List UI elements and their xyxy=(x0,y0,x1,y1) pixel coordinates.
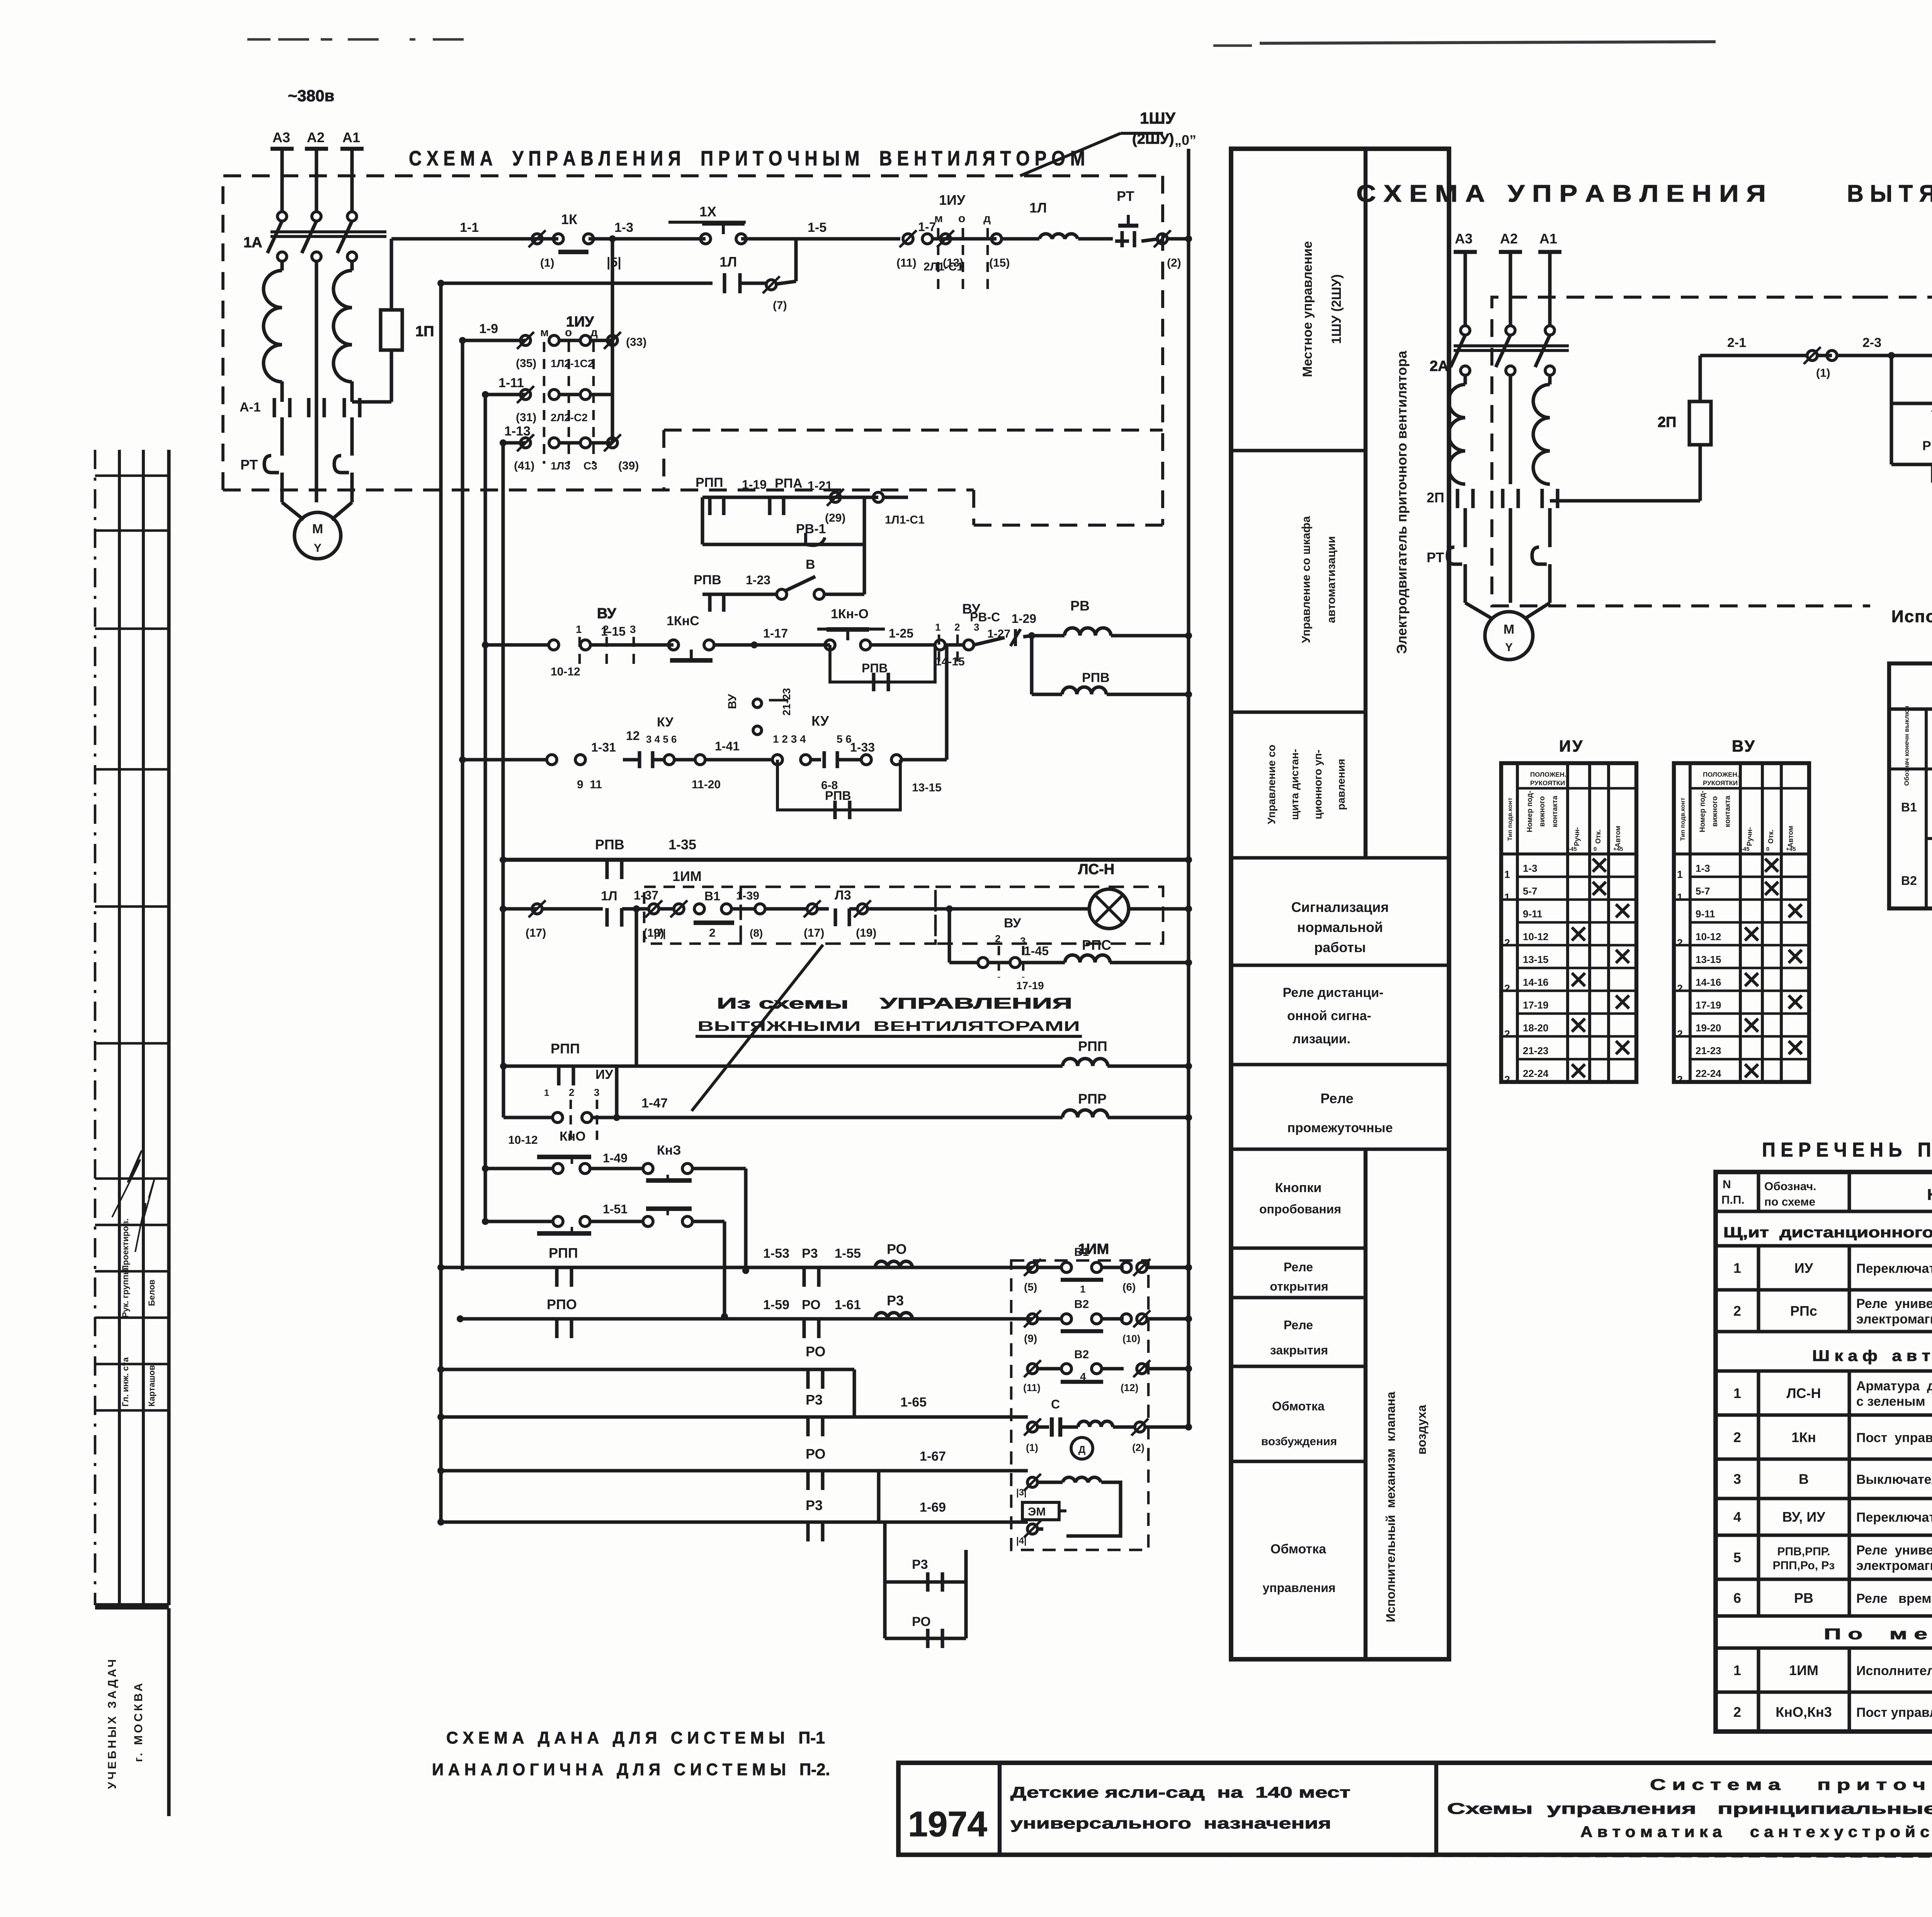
svg-text:N: N xyxy=(1723,1178,1731,1191)
rung 1-1 main control xyxy=(391,237,558,240)
svg-text:1-19: 1-19 xyxy=(742,478,767,492)
svg-text:2: 2 xyxy=(1733,1303,1741,1319)
svg-text:В: В xyxy=(806,557,815,572)
motor M exhaust xyxy=(1465,603,1492,618)
rung RO bottom xyxy=(885,1636,966,1640)
rung 1-11 xyxy=(485,393,526,396)
svg-text:„0”: „0” xyxy=(1175,132,1196,148)
svg-text:Пост управления кнопочный: Пост управления кнопочный xyxy=(1856,1431,1932,1445)
svg-text:по схеме: по схеме xyxy=(1764,1196,1815,1208)
svg-text:1Кн-О: 1Кн-О xyxy=(831,607,869,621)
svg-text:6: 6 xyxy=(1733,1590,1741,1606)
svg-text:13-15: 13-15 xyxy=(912,781,942,794)
svg-text:Р3: Р3 xyxy=(806,1497,823,1513)
callout from exhaust scheme xyxy=(692,945,823,1111)
rung 1-15 1KnS 1-17 1Kn-O 1-25 xyxy=(485,643,549,646)
svg-text:о: о xyxy=(958,212,965,225)
svg-text:2: 2 xyxy=(1677,983,1683,994)
branch RPV under KU xyxy=(777,760,900,810)
svg-text:|4|: |4| xyxy=(1016,1536,1027,1546)
svg-text:РТ: РТ xyxy=(240,457,258,473)
control winding coil xyxy=(1063,1477,1101,1482)
svg-text:2П: 2П xyxy=(1427,490,1444,505)
svg-text:1: 1 xyxy=(1733,1662,1741,1678)
svg-text:1-1: 1-1 xyxy=(460,220,479,235)
svg-text:|3|: |3| xyxy=(1016,1487,1027,1498)
svg-text:КУ: КУ xyxy=(811,713,829,729)
svg-text:Карташов: Карташов xyxy=(147,1365,156,1407)
svg-text:РПП: РПП xyxy=(551,1041,580,1056)
svg-text:Сигнализация: Сигнализация xyxy=(1291,899,1389,915)
svg-text:ционного уп-: ционного уп- xyxy=(1312,750,1324,819)
fold crease marks top-left xyxy=(247,38,270,41)
svg-text:1: 1 xyxy=(1504,869,1510,880)
svg-text:Детские ясли-сад на 140 мест: Детские ясли-сад на 140 мест xyxy=(1010,1784,1350,1801)
phase A3 feeder xyxy=(270,147,294,151)
svg-text:(31): (31) xyxy=(516,411,536,424)
svg-text:РПС: РПС xyxy=(1082,937,1111,953)
svg-text:2: 2 xyxy=(1504,937,1510,949)
svg-text:Л3: Л3 xyxy=(835,888,851,903)
svg-text:1А: 1А xyxy=(243,235,262,251)
dashed box from exhaust scheme xyxy=(741,887,935,944)
svg-text:1-67: 1-67 xyxy=(920,1449,946,1464)
svg-text:С3: С3 xyxy=(583,460,597,472)
motor D xyxy=(1071,1437,1093,1459)
phase A1 feeder xyxy=(340,147,364,151)
svg-text:РВ-1: РВ-1 xyxy=(796,522,826,536)
svg-text:В: В xyxy=(1799,1471,1809,1487)
svg-text:д: д xyxy=(590,326,598,339)
svg-text:0: 0 xyxy=(1766,846,1769,852)
svg-text:РО: РО xyxy=(806,1344,826,1359)
wire fuse to phase xyxy=(352,400,391,403)
svg-text:Н А И М Е Н О В А Н И Е: Н А И М Е Н О В А Н И Е xyxy=(1927,1186,1932,1203)
svg-text:2-1: 2-1 xyxy=(1727,335,1746,350)
svg-text:1-33: 1-33 xyxy=(850,740,875,754)
svg-text:1-23: 1-23 xyxy=(746,573,770,587)
svg-text:А2: А2 xyxy=(307,129,325,145)
svg-text:м: м xyxy=(540,326,549,339)
svg-text:(11): (11) xyxy=(1023,1382,1041,1393)
svg-text:1-3: 1-3 xyxy=(614,220,633,235)
svg-text:РПП: РПП xyxy=(696,475,723,490)
svg-text:1: 1 xyxy=(1677,869,1683,880)
svg-text:(41): (41) xyxy=(514,459,534,472)
rung RPV 1-23 switch V xyxy=(702,592,777,596)
svg-text:9-11: 9-11 xyxy=(1696,908,1715,920)
rung signal lamp LS-N xyxy=(503,907,537,910)
svg-text:+45: +45 xyxy=(1613,846,1623,852)
button 1X xyxy=(701,234,711,244)
svg-text:В Ы Т Я Ж Н Ы М В Е Н Т И: В Ы Т Я Ж Н Ы М В Е Н Т И Л Я Т О Р О М xyxy=(1847,180,1932,207)
contact (13) xyxy=(946,237,997,240)
svg-text:В1: В1 xyxy=(704,889,720,903)
svg-text:10-12: 10-12 xyxy=(551,665,580,678)
dashed enclosure exhaust starter xyxy=(1492,297,1870,606)
svg-text:2-3: 2-3 xyxy=(1862,335,1881,350)
svg-text:онной сигна-: онной сигна- xyxy=(1287,1009,1371,1023)
svg-text:1: 1 xyxy=(935,621,940,633)
svg-text:Схемы управления принципиал: Схемы управления принципиальные электрич… xyxy=(1447,1800,1932,1817)
svg-text:(1): (1) xyxy=(540,257,554,269)
contact (11) xyxy=(903,234,913,244)
svg-text:10-12: 10-12 xyxy=(1696,931,1721,942)
svg-text:вижного: вижного xyxy=(1711,796,1719,827)
svg-text:возбуждения: возбуждения xyxy=(1261,1435,1337,1448)
svg-text:Р3: Р3 xyxy=(806,1392,823,1408)
svg-text:В2: В2 xyxy=(1901,874,1917,888)
svg-text:(1): (1) xyxy=(1026,1442,1038,1453)
svg-text:(5): (5) xyxy=(1024,1281,1037,1293)
svg-text:ВЫТЯЖНЫМИ ВЕНТИЛЯТОРАМИ: ВЫТЯЖНЫМИ ВЕНТИЛЯТОРАМИ xyxy=(697,1018,1080,1034)
rung RV-1 xyxy=(702,543,864,546)
svg-text:(17): (17) xyxy=(804,927,824,939)
svg-text:РО: РО xyxy=(887,1241,907,1257)
svg-text:РПВ: РПВ xyxy=(694,573,721,587)
svg-text:РУКОЯТКИ: РУКОЯТКИ xyxy=(1530,779,1565,787)
svg-text:Управление со: Управление со xyxy=(1265,745,1277,824)
svg-text:2: 2 xyxy=(1504,1074,1510,1085)
svg-text:ЛС-Н: ЛС-Н xyxy=(1078,861,1114,878)
svg-text:РПП 2-9: РПП 2-9 xyxy=(1922,439,1932,453)
svg-text:0: 0 xyxy=(1594,846,1597,852)
svg-text:П о м е с т у: П о м е с т у xyxy=(1824,1626,1932,1643)
rung 1-51 xyxy=(485,1220,553,1223)
svg-text:2: 2 xyxy=(1677,1028,1683,1040)
svg-text:1-21: 1-21 xyxy=(808,479,832,493)
limit switch V1 row xyxy=(1027,1262,1037,1272)
svg-text:управления: управления xyxy=(1262,1581,1335,1595)
exhaust phase A1 xyxy=(1538,250,1561,254)
table 1IM frame xyxy=(1889,663,1932,908)
svg-text:10-12: 10-12 xyxy=(1523,931,1549,942)
svg-text:А2: А2 xyxy=(1500,231,1518,247)
svg-text:И А Н А Л О Г И Ч Н А Д Л Я: И А Н А Л О Г И Ч Н А Д Л Я С И С Т Е М … xyxy=(432,1760,830,1779)
contact RPP on rung xyxy=(557,1066,560,1085)
svg-text:электромагнитное: электромагнитное xyxy=(1856,1558,1932,1573)
svg-text:1Л: 1Л xyxy=(719,254,737,270)
svg-text:1-39: 1-39 xyxy=(736,890,759,902)
svg-text:Исполнительный механизм: Исполнительный механизм xyxy=(1856,1664,1932,1678)
svg-text:опробования: опробования xyxy=(1259,1202,1341,1216)
svg-text:ВУ: ВУ xyxy=(1004,916,1021,930)
overload coils phase A1 xyxy=(333,270,352,382)
svg-text:(19): (19) xyxy=(856,927,876,939)
svg-text:(13): (13) xyxy=(943,257,963,269)
svg-text:1-65: 1-65 xyxy=(900,1395,927,1410)
svg-text:1: 1 xyxy=(1733,1385,1741,1401)
svg-text:1КнС: 1КнС xyxy=(667,614,699,628)
svg-text:Исполнительный мех-м: Исполнительный мех-м xyxy=(1891,607,1932,626)
svg-text:3: 3 xyxy=(630,623,636,635)
svg-text:Пост управления кнопочный: Пост управления кнопочный xyxy=(1856,1705,1932,1720)
svg-text:Реле универсальное: Реле универсальное xyxy=(1856,1296,1932,1311)
rung R3 1-69 EM xyxy=(441,1520,879,1524)
svg-text:1-25: 1-25 xyxy=(889,626,913,640)
svg-text:2: 2 xyxy=(709,927,716,939)
svg-text:С: С xyxy=(1051,1397,1060,1411)
contact 1K xyxy=(553,234,563,244)
svg-text:Реле: Реле xyxy=(1284,1260,1313,1274)
svg-text:21-23: 21-23 xyxy=(1696,1045,1721,1056)
svg-text:ПОЛОЖЕН.: ПОЛОЖЕН. xyxy=(1703,771,1739,778)
svg-text:РПВ: РПВ xyxy=(595,837,624,852)
svg-text:(15): (15) xyxy=(989,257,1010,269)
svg-text:А3: А3 xyxy=(1455,231,1473,247)
svg-text:1: 1 xyxy=(1733,1260,1741,1276)
svg-text:РПВ: РПВ xyxy=(1082,670,1110,685)
svg-text:21-23: 21-23 xyxy=(1523,1045,1549,1056)
limit switch V1 xyxy=(694,904,704,914)
svg-text:С Х Е М А У П Р А В Л Е Н И: С Х Е М А У П Р А В Л Е Н И Я П Р И Т О … xyxy=(409,147,1085,170)
svg-text:1: 1 xyxy=(576,623,582,635)
svg-text:В2: В2 xyxy=(1074,1348,1089,1361)
svg-text:1-7: 1-7 xyxy=(918,220,936,234)
svg-text:9-11: 9-11 xyxy=(1523,908,1543,920)
svg-text:универсального назначения: универсального назначения xyxy=(1010,1815,1331,1832)
svg-text:РПВ: РПВ xyxy=(825,789,851,803)
svg-text:Тип подв.конт: Тип подв.конт xyxy=(1680,798,1686,841)
overload coils phase A3 xyxy=(264,270,282,382)
svg-text:10-12: 10-12 xyxy=(508,1134,538,1146)
rung R3 bottom xyxy=(883,1522,886,1638)
rail from wire 1-1 xyxy=(391,239,392,309)
svg-text:Реле: Реле xyxy=(1320,1090,1354,1106)
svg-text:(39): (39) xyxy=(618,459,639,472)
svg-text:Номер под-: Номер под- xyxy=(1699,791,1707,832)
svg-text:1-17: 1-17 xyxy=(763,626,788,640)
svg-text:2: 2 xyxy=(569,1087,574,1098)
svg-text:А в т о м а т и к а с а н: А в т о м а т и к а с а н т е х у с т р … xyxy=(1580,1823,1932,1840)
contact VU column xyxy=(753,699,762,708)
svg-text:1-31: 1-31 xyxy=(591,740,616,754)
svg-text:ЭМ: ЭМ xyxy=(1028,1505,1046,1518)
phase A2 feeder xyxy=(305,147,328,151)
middle function table frame xyxy=(1231,149,1449,1659)
svg-text:1ИУ: 1ИУ xyxy=(939,192,966,208)
junction column 1-3 to selector xyxy=(611,239,614,443)
svg-text:ВУ: ВУ xyxy=(597,606,616,622)
fuse 1P xyxy=(389,239,393,310)
svg-text:1К: 1К xyxy=(561,211,578,227)
svg-text:1-13: 1-13 xyxy=(504,424,531,439)
svg-text:5-7: 5-7 xyxy=(1523,885,1537,897)
svg-text:2: 2 xyxy=(1677,937,1683,949)
svg-text:Белов: Белов xyxy=(147,1279,156,1306)
svg-text:2: 2 xyxy=(1504,1028,1510,1040)
svg-text:вижного: вижного xyxy=(1538,796,1546,827)
svg-text:3 4 5 6: 3 4 5 6 xyxy=(646,733,677,745)
svg-text:Обмотка: Обмотка xyxy=(1270,1542,1327,1556)
svg-text:РПВ,РПР.: РПВ,РПР. xyxy=(1777,1545,1830,1558)
svg-text:РВ-С: РВ-С xyxy=(970,610,1000,624)
svg-text:17-19: 17-19 xyxy=(1696,999,1721,1011)
svg-text:1: 1 xyxy=(544,1088,549,1098)
contact RPP xyxy=(708,497,711,515)
svg-text:1Х: 1Х xyxy=(699,204,716,219)
rung 2L seal-in xyxy=(1889,356,1893,464)
rung RPP 1-53 R3 1-55 RO coil xyxy=(441,1266,746,1269)
svg-text:РО: РО xyxy=(912,1614,931,1629)
svg-text:1-53: 1-53 xyxy=(763,1246,789,1261)
svg-text:1-15: 1-15 xyxy=(601,624,626,638)
svg-text:П.П.: П.П. xyxy=(1721,1194,1745,1206)
svg-text:2: 2 xyxy=(1733,1704,1741,1720)
svg-text:С Х Е М А Д А Н А Д Л Я: С Х Е М А Д А Н А Д Л Я С И С Т Е М Ы П-… xyxy=(446,1728,825,1747)
svg-text:открытия: открытия xyxy=(1270,1279,1328,1293)
svg-text:1-59: 1-59 xyxy=(763,1298,789,1312)
svg-text:Отк.: Отк. xyxy=(1767,830,1775,844)
fuse 2P xyxy=(1550,499,1700,502)
svg-text:(11): (11) xyxy=(896,257,917,269)
svg-text:Исполнительный механизм клап: Исполнительный механизм клапана xyxy=(1384,1391,1398,1622)
rung RPP coil xyxy=(634,909,638,1066)
svg-text:Реле универсальное: Реле универсальное xyxy=(1856,1543,1932,1558)
svg-text:Реле дистанци-: Реле дистанци- xyxy=(1283,985,1384,1000)
svg-text:РПО: РПО xyxy=(547,1296,577,1312)
svg-text:Обознач конечн выключ: Обознач конечн выключ xyxy=(1903,706,1910,786)
svg-text:5 6: 5 6 xyxy=(837,733,852,745)
svg-text:Y: Y xyxy=(1505,641,1513,654)
svg-text:1Л: 1Л xyxy=(1029,200,1047,216)
svg-text:лизации.: лизации. xyxy=(1293,1032,1350,1046)
svg-text:(7): (7) xyxy=(773,299,787,312)
contact RPA xyxy=(768,497,771,515)
svg-text:Электродвигатель приточного ве: Электродвигатель приточного вентилятора xyxy=(1394,350,1410,654)
svg-text:работы: работы xyxy=(1314,939,1366,955)
excitation coil xyxy=(1078,1421,1113,1427)
svg-text:КнО: КнО xyxy=(560,1129,586,1144)
rung R3 1-65 capacitor C excit coil xyxy=(441,1415,854,1419)
svg-text:2: 2 xyxy=(1733,1429,1741,1445)
svg-text:Обмотка: Обмотка xyxy=(1272,1399,1325,1413)
svg-text:Тип подв.конт: Тип подв.конт xyxy=(1507,798,1514,841)
svg-text:Переключатель малогабаритный: Переключатель малогабаритный xyxy=(1856,1261,1932,1276)
svg-text:Местное управление: Местное управление xyxy=(1300,241,1315,377)
svg-text:с зеленым стеклом: с зеленым стеклом xyxy=(1856,1394,1932,1409)
svg-text:Щ,ит дистанционного управлен: Щ,ит дистанционного управления и аварийн… xyxy=(1723,1225,1932,1241)
rung RPV coil xyxy=(1030,636,1033,694)
svg-text:электромагнитное: электромагнитное xyxy=(1856,1312,1932,1327)
svg-text:В1: В1 xyxy=(1901,800,1917,814)
svg-text:КнО,Кн3: КнО,Кн3 xyxy=(1776,1704,1832,1720)
rung RPP 2-9 xyxy=(1891,463,1932,466)
svg-text:РПР: РПР xyxy=(1078,1091,1107,1107)
svg-text:д: д xyxy=(983,212,991,225)
svg-text:(8): (8) xyxy=(750,927,763,939)
svg-text:5: 5 xyxy=(1733,1550,1741,1565)
svg-text:А3: А3 xyxy=(272,129,290,145)
rung KU 1-31 1-41 1-33 xyxy=(463,758,547,761)
svg-text:РПП: РПП xyxy=(1078,1038,1107,1054)
branch RPV under 1Kn-O xyxy=(830,645,935,682)
svg-text:1-11: 1-11 xyxy=(498,376,524,390)
svg-text:2: 2 xyxy=(954,621,960,633)
svg-text:14-15: 14-15 xyxy=(935,655,965,668)
svg-text:1ШУ: 1ШУ xyxy=(1140,109,1176,127)
svg-text:(9): (9) xyxy=(1024,1332,1037,1344)
svg-text:1-35: 1-35 xyxy=(668,837,696,852)
rung 1L seal-in xyxy=(441,281,713,285)
svg-text:1 2 3 4: 1 2 3 4 xyxy=(773,733,806,745)
left rail 4 xyxy=(483,395,487,1221)
rung RPP RPA xyxy=(702,495,878,499)
svg-text:1-41: 1-41 xyxy=(715,739,740,753)
svg-text:М: М xyxy=(312,522,323,536)
svg-text:закрытия: закрытия xyxy=(1270,1343,1328,1357)
svg-text:1ИМ: 1ИМ xyxy=(1789,1662,1818,1678)
svg-text:1-29: 1-29 xyxy=(1012,612,1036,626)
brake magnet EM xyxy=(1022,1502,1059,1520)
svg-text:3: 3 xyxy=(594,1087,599,1098)
stamp column cells xyxy=(95,475,169,477)
svg-text:РПП,Ро, Рз: РПП,Ро, Рз xyxy=(1773,1559,1835,1572)
svg-text:Переключатель малогабаритный: Переключатель малогабаритный xyxy=(1856,1510,1932,1525)
rung RPV 1-35 xyxy=(503,858,1189,862)
svg-text:Выключатель пакетный: Выключатель пакетный xyxy=(1856,1472,1932,1487)
right rail 0 line supply xyxy=(1187,149,1190,1430)
svg-text:22-24: 22-24 xyxy=(1696,1068,1721,1079)
svg-text:|7|: |7| xyxy=(654,927,666,939)
contact 1L aux xyxy=(723,273,726,293)
svg-text:контакта: контакта xyxy=(1724,796,1732,827)
svg-text:ВУ: ВУ xyxy=(1732,737,1756,755)
svg-text:1-69: 1-69 xyxy=(920,1500,946,1515)
rung 2-1 exhaust control xyxy=(1700,354,1808,357)
motor M supply xyxy=(282,502,304,520)
svg-text:Р3: Р3 xyxy=(912,1557,928,1572)
svg-text:ВУ, ИУ: ВУ, ИУ xyxy=(1782,1509,1825,1525)
svg-text:П Е Р Е Ч Е Н Ь П Р И Б О Р: П Е Р Е Ч Е Н Ь П Р И Б О Р О В И А П П … xyxy=(1762,1139,1932,1161)
phase A2 conductor xyxy=(315,261,318,448)
fold crease marks top-middle xyxy=(1213,44,1252,47)
svg-text:КнЗ: КнЗ xyxy=(657,1143,681,1158)
svg-text:Автом: Автом xyxy=(1614,826,1622,847)
svg-text:(35): (35) xyxy=(516,357,536,370)
svg-text:Y: Y xyxy=(314,542,321,555)
svg-text:РПВ: РПВ xyxy=(862,661,888,675)
svg-text:Ручн-: Ручн- xyxy=(1746,827,1753,846)
svg-text:1Л3: 1Л3 xyxy=(551,460,570,472)
rung RPO 1-59 RO 1-61 R3 coil V2 xyxy=(460,1317,724,1320)
svg-text:РУКОЯТКИ: РУКОЯТКИ xyxy=(1703,779,1738,787)
svg-text:(10): (10) xyxy=(1122,1333,1140,1344)
svg-text:1-47: 1-47 xyxy=(641,1096,668,1111)
svg-text:9 11: 9 11 xyxy=(577,778,602,791)
left margin fold line xyxy=(94,450,97,1605)
svg-text:1: 1 xyxy=(1080,1283,1085,1295)
svg-text:1-37: 1-37 xyxy=(634,888,658,902)
svg-text:РВ: РВ xyxy=(1794,1590,1813,1606)
svg-text:1-51: 1-51 xyxy=(603,1202,628,1216)
svg-text:ПОЛОЖЕН.: ПОЛОЖЕН. xyxy=(1530,771,1566,778)
svg-text:+45: +45 xyxy=(1786,846,1796,852)
overload coils exhaust xyxy=(1449,384,1465,484)
svg-text:5-7: 5-7 xyxy=(1696,885,1710,897)
svg-text:1Л1-С1: 1Л1-С1 xyxy=(885,514,925,526)
svg-text:21-23: 21-23 xyxy=(781,688,793,716)
svg-text:4: 4 xyxy=(1733,1509,1741,1525)
svg-text:13-15: 13-15 xyxy=(1696,954,1721,965)
svg-text:Арматура для сигнальной ла: Арматура для сигнальной лампы xyxy=(1856,1379,1932,1393)
svg-text:13-15: 13-15 xyxy=(1523,954,1549,965)
svg-text:РО: РО xyxy=(806,1446,826,1462)
stamp column verticals xyxy=(118,450,121,1605)
rung RPR 1-47 coil xyxy=(615,1066,618,1118)
svg-text:Гл. инж. ста: Гл. инж. ста xyxy=(121,1357,130,1407)
svg-text:автоматизации: автоматизации xyxy=(1325,536,1338,623)
